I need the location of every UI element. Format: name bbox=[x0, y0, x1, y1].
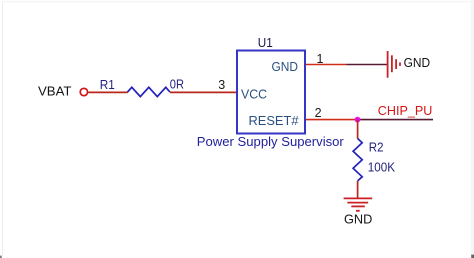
svg-text:GND: GND bbox=[272, 59, 299, 74]
svg-text:U1: U1 bbox=[258, 36, 273, 50]
svg-text:100K: 100K bbox=[368, 160, 396, 174]
svg-text:GND: GND bbox=[344, 212, 372, 227]
resistor R1 bbox=[128, 87, 170, 96]
svg-text:0R: 0R bbox=[170, 78, 184, 92]
svg-text:R2: R2 bbox=[369, 140, 384, 154]
wire R1 to U1 pin 3 bbox=[170, 91, 237, 93]
wire junction to R2 bbox=[357, 120, 359, 139]
svg-text:Power Supply Supervisor: Power Supply Supervisor bbox=[197, 134, 345, 149]
svg-text:VBAT: VBAT bbox=[38, 84, 72, 99]
node VBAT bbox=[38, 84, 88, 99]
resistor R2 bbox=[353, 139, 362, 181]
svg-text:GND: GND bbox=[404, 55, 431, 70]
junction node bbox=[355, 117, 361, 123]
svg-text:3: 3 bbox=[218, 78, 225, 92]
wire U1 pin 1 to GND bbox=[306, 64, 388, 66]
svg-text:1: 1 bbox=[317, 52, 324, 66]
ground GND right (power ground) bbox=[388, 51, 400, 78]
svg-text:R1: R1 bbox=[100, 78, 115, 92]
svg-text:VCC: VCC bbox=[241, 87, 267, 102]
wire U1 pin 2 to CHIP_PU bbox=[306, 119, 433, 121]
wire VBAT to R1 bbox=[88, 91, 128, 93]
IC U1 body bbox=[237, 51, 305, 134]
svg-text:2: 2 bbox=[315, 106, 322, 120]
svg-text:CHIP_PU: CHIP_PU bbox=[378, 103, 433, 118]
svg-text:RESET#: RESET# bbox=[249, 113, 300, 128]
ground GND bottom bbox=[344, 198, 373, 210]
wire R2 to GND bbox=[357, 181, 359, 199]
